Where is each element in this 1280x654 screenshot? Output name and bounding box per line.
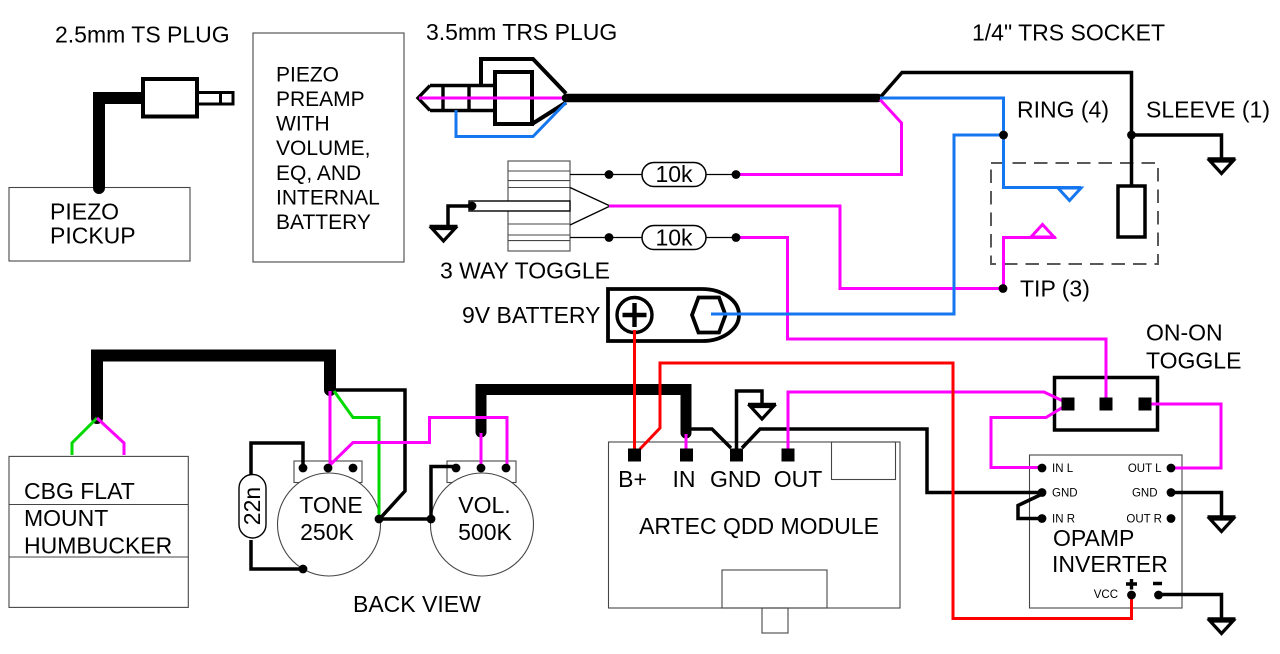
svg-text:INVERTER: INVERTER (1052, 551, 1168, 577)
svg-text:TOGGLE: TOGGLE (1146, 348, 1241, 374)
svg-text:IN R: IN R (1052, 514, 1075, 526)
svg-text:BATTERY: BATTERY (276, 211, 371, 234)
svg-text:GND: GND (1132, 488, 1158, 500)
svg-text:22n: 22n (239, 487, 265, 525)
svg-text:3 WAY TOGGLE: 3 WAY TOGGLE (440, 258, 610, 284)
svg-text:VCC: VCC (1094, 589, 1118, 601)
svg-text:PICKUP: PICKUP (50, 223, 136, 249)
svg-text:VOL.: VOL. (458, 492, 510, 518)
svg-text:VOLUME,: VOLUME, (276, 137, 371, 160)
svg-text:BACK VIEW: BACK VIEW (353, 591, 481, 617)
svg-text:CBG FLAT: CBG FLAT (24, 478, 135, 504)
svg-text:MOUNT: MOUNT (24, 505, 108, 531)
svg-text:B+: B+ (618, 466, 647, 492)
svg-text:OUT R: OUT R (1126, 514, 1162, 526)
svg-text:2.5mm TS PLUG: 2.5mm TS PLUG (55, 22, 230, 48)
svg-text:PIEZO: PIEZO (50, 199, 119, 225)
svg-text:500K: 500K (458, 519, 512, 545)
svg-text:EQ, AND: EQ, AND (276, 162, 361, 185)
svg-text:PREAMP: PREAMP (276, 88, 365, 111)
svg-text:9V BATTERY: 9V BATTERY (462, 302, 600, 328)
svg-text:RING (4): RING (4) (1017, 97, 1109, 123)
svg-text:250K: 250K (300, 519, 354, 545)
svg-text:IN L: IN L (1052, 463, 1074, 475)
svg-text:WITH: WITH (276, 113, 330, 136)
svg-text:OUT L: OUT L (1128, 463, 1162, 475)
svg-text:10k: 10k (655, 161, 693, 187)
svg-text:PIEZO: PIEZO (276, 63, 339, 86)
svg-text:1/4" TRS SOCKET: 1/4" TRS SOCKET (972, 20, 1165, 46)
svg-text:ON-ON: ON-ON (1146, 320, 1223, 346)
svg-text:OUT: OUT (774, 466, 823, 492)
svg-text:10k: 10k (655, 225, 693, 251)
svg-text:TONE: TONE (299, 492, 362, 518)
svg-text:GND: GND (1052, 488, 1078, 500)
svg-text:ARTEC QDD MODULE: ARTEC QDD MODULE (639, 513, 879, 539)
svg-text:SLEEVE (1): SLEEVE (1) (1146, 97, 1270, 123)
svg-text:TIP (3): TIP (3) (1020, 276, 1090, 302)
svg-text:HUMBUCKER: HUMBUCKER (24, 533, 172, 559)
svg-text:GND: GND (710, 466, 761, 492)
svg-text:3.5mm TRS PLUG: 3.5mm TRS PLUG (426, 19, 617, 45)
svg-text:OPAMP: OPAMP (1053, 525, 1134, 551)
svg-text:INTERNAL: INTERNAL (276, 186, 380, 209)
svg-text:IN: IN (673, 466, 696, 492)
